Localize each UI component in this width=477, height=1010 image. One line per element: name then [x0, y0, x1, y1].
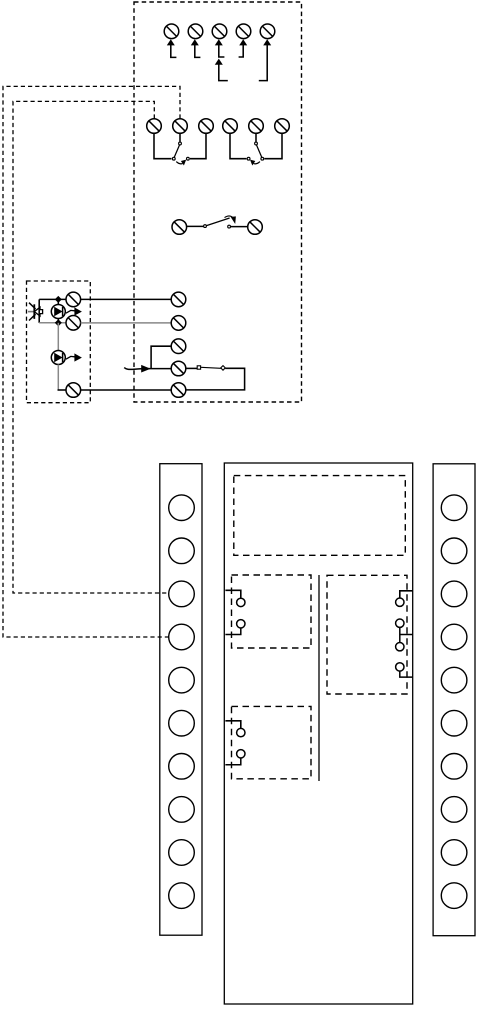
wire to terminal J16: [58, 389, 67, 391]
CN2 pin 1: [441, 495, 467, 521]
terminal J16 (slashed circle in U2, bottom): [66, 383, 81, 398]
wire arrow into J3 (lower): [215, 59, 228, 81]
terminal J3 (slashed circle, top row 3): [212, 24, 227, 39]
M4 pin 2: [237, 750, 245, 758]
M4 pin 1: [237, 728, 245, 736]
CN1 pin 7: [169, 754, 195, 780]
CN2 pin 7: [441, 754, 467, 780]
main board outline (bottom middle): [224, 463, 412, 1004]
terminal J20 (column, row 4): [171, 361, 186, 376]
M2 pin 1: [237, 598, 245, 606]
terminal J21 (column, row 5): [171, 383, 186, 398]
wire bottom rail inside U2 (gray net): [39, 322, 66, 324]
module boundary M4 (dashed, lower-left of board): [232, 706, 312, 778]
wire gray net below LED D3: [57, 365, 59, 391]
LED D3 (emitting): [51, 351, 82, 365]
wire photodiode vertical bus: [38, 299, 40, 322]
junction node (top rail): [55, 296, 62, 303]
wire net B (J15 to J18, gray): [81, 322, 172, 324]
M3 pin 1: [396, 598, 404, 606]
connector strip CN2 (right): [433, 464, 475, 936]
terminal J13 (switch S3, right): [248, 220, 263, 235]
terminal J6 (switch S1 group, left): [147, 119, 162, 134]
CN1 pin 8: [169, 797, 195, 823]
wire top rail inside U2: [39, 298, 66, 300]
module boundary M2 (dashed, mid-left of board): [232, 575, 312, 648]
CN2 pin 4: [441, 624, 467, 650]
wire arrow into J3 (upper): [215, 39, 225, 57]
M3 pin 3: [396, 643, 404, 651]
wire gray net down to LED D3: [57, 323, 59, 351]
terminal J4 (slashed circle, top row 4): [236, 24, 251, 39]
M2 pin bracket: [225, 590, 240, 634]
module boundary M1 (dashed, top of board): [234, 476, 405, 556]
wire arrow into J5: [259, 39, 271, 80]
M3 pin 2: [396, 619, 404, 627]
module boundary U1 (large dashed rectangle, top): [134, 2, 302, 402]
terminal J1 (slashed circle, top row 1): [164, 24, 179, 39]
CN1 pin 9: [169, 840, 195, 866]
terminal J15 (slashed circle in U2, middle): [66, 316, 81, 331]
CN2 pin 10: [441, 883, 467, 909]
switch S4 (closed blade, square and diamond contacts): [197, 366, 225, 371]
CN1 pin 5: [169, 667, 195, 693]
divider line between M2/M4 and M3: [318, 575, 320, 781]
CN1 pin 3: [169, 581, 195, 607]
CN2 pin 8: [441, 797, 467, 823]
CN2 pin 3: [441, 581, 467, 607]
dashed net path A (J7 to left strip pin 4): [3, 86, 180, 637]
wire S4 to J21 (right loop): [186, 368, 245, 390]
CN1 pin 2: [169, 538, 195, 564]
wire arrow into J1: [167, 39, 177, 57]
wire net C (J16 to J21, black): [81, 389, 172, 391]
terminal J18 (column, row 2): [171, 316, 186, 331]
CN1 pin 1: [169, 495, 195, 521]
wire S3 to J13: [231, 226, 248, 228]
terminal J11 (switch S2 group, right): [275, 119, 290, 134]
dashed net path B (J6 to left strip pin 3): [13, 101, 169, 593]
CN2 pin 5: [441, 667, 467, 693]
switch S2 (SPDT, blade to right contact): [247, 142, 263, 165]
wire arrow into J4: [239, 39, 248, 57]
terminal J14 (slashed circle in U2, top): [66, 292, 81, 307]
wire J7 to S1 common: [179, 133, 181, 141]
terminal J2 (slashed circle, top row 2): [188, 24, 203, 39]
M2 pin 2: [237, 620, 245, 628]
module boundary M3 (dashed, mid-right of board): [327, 575, 407, 694]
terminal J9 (switch S2 group, left): [223, 119, 238, 134]
switch S3 (SPST, open blade with actuation arrow): [204, 216, 236, 228]
CN2 pin 2: [441, 538, 467, 564]
terminal J7 (switch S1 group, middle): [173, 119, 188, 134]
wire J12 to S3: [187, 225, 204, 227]
terminal J5 (slashed circle, top row 5): [260, 24, 275, 39]
wire net A (J14 to J17, black): [81, 298, 172, 300]
terminal J12 (switch S3, left): [172, 220, 187, 235]
junction node (bottom rail): [55, 319, 62, 326]
CN1 pin 6: [169, 710, 195, 736]
module boundary U2 (dashed box around optocoupler/LED block): [27, 281, 91, 403]
switch S1 (SPDT, blade to left contact): [172, 142, 189, 165]
wire J20 to switch S4: [186, 367, 197, 369]
CN2 pin 6: [441, 710, 467, 736]
terminal J17 (column, row 1): [171, 292, 186, 307]
wire node to J19: [151, 346, 171, 368]
CN1 pin 10: [169, 883, 195, 909]
wire J6 to S1 left contact: [154, 133, 172, 158]
wire with arrow entering node (from left): [124, 365, 150, 373]
CN1 pin 4: [169, 624, 195, 650]
terminal J8 (switch S1 group, right): [199, 119, 214, 134]
wire arrow into J2: [191, 39, 201, 57]
wire J9 to S2 left contact: [230, 133, 247, 158]
M4 pin bracket: [225, 721, 240, 765]
wire node to J20: [147, 368, 171, 370]
M3 pin bracket: [400, 591, 413, 677]
terminal J10 (switch S2 group, middle): [249, 119, 264, 134]
photodiode D1 (with incident light rays): [28, 303, 43, 321]
wire J11 to S2 right contact: [264, 133, 282, 158]
wire J10 to S2 common: [255, 133, 257, 141]
CN2 pin 9: [441, 840, 467, 866]
wire J8 to S1 right contact: [190, 133, 206, 158]
terminal J19 (column, row 3): [171, 339, 186, 354]
connector strip CN1 (left): [160, 464, 202, 936]
LED D2 (emitting, between rails): [51, 299, 82, 322]
M3 pin 4: [396, 663, 404, 671]
